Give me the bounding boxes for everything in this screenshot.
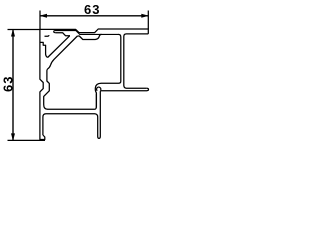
lower leg right edge	[99, 91, 102, 113]
svg-text:63: 63	[84, 2, 100, 17]
corner pocket steps and leg inner shoulder	[41, 42, 48, 57]
arrow top-left	[39, 14, 47, 18]
dimension line top	[40, 15, 148, 17]
junction curl outer	[95, 83, 118, 107]
arrow left-bottom	[11, 133, 15, 141]
arrow top-right	[141, 14, 149, 18]
extension line top-left	[39, 11, 41, 30]
right blade bottom line and end cap	[101, 88, 149, 91]
flange inner edge middle: D_lower to web	[77, 34, 101, 39]
junction curl inner hook	[97, 87, 101, 91]
wall top line	[48, 108, 95, 110]
right blade top line	[127, 87, 147, 89]
extension line top-right	[147, 11, 149, 30]
flange slot line under outer edge with hairpin	[54, 31, 119, 35]
brace upper diagonal D_upper	[48, 36, 70, 58]
profile outer contour: top edge with joggle, right end cap, left leg with bump, bottom cap	[40, 29, 148, 140]
extension line left-top	[8, 29, 41, 31]
web vertical left line	[118, 34, 121, 83]
wall bottom line	[43, 114, 98, 135]
web vertical right line + flange inner right	[124, 34, 149, 88]
corner screw channel lower lip hook	[45, 35, 49, 36]
extension line left-bottom	[8, 139, 46, 141]
arrow left-top	[11, 29, 15, 37]
leg inner edge: below brace, bump, jog, to wall fillet	[44, 65, 51, 109]
brace lower diagonal D_lower	[51, 36, 78, 65]
lower leg left edge upper part	[95, 94, 97, 110]
lower leg below wall	[98, 113, 101, 138]
flange inner edge left steps to brace root	[55, 33, 70, 36]
dimension line left	[12, 30, 14, 141]
